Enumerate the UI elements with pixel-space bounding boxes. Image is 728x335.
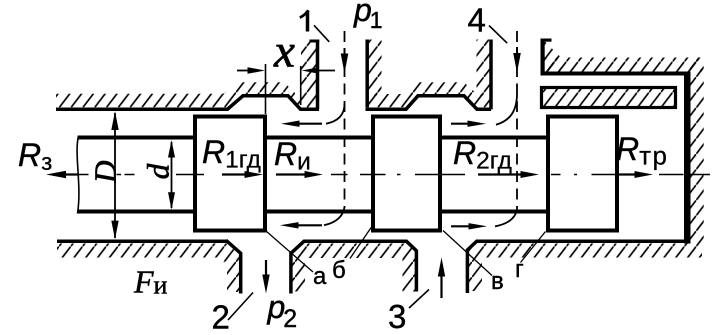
svg-text:x: x — [273, 26, 295, 78]
top-right wall left edge — [540, 39, 544, 76]
svg-text:3: 3 — [388, 298, 406, 335]
svg-text:Rтр: Rтр — [616, 131, 668, 171]
svg-text:г: г — [515, 256, 524, 283]
svg-text:Rз: Rз — [18, 137, 52, 176]
right housing wall — [684, 72, 691, 244]
upper-left wall column top tick — [310, 40, 320, 43]
leader line port 1 — [314, 25, 329, 42]
flow arrow into left chamber (upper) — [295, 123, 322, 125]
svg-text:Rи: Rи — [274, 136, 311, 176]
port 1 upper flow arc — [326, 104, 345, 124]
svg-text:а: а — [313, 263, 327, 290]
spool land 2 — [373, 117, 440, 231]
leader line edge g — [521, 232, 546, 263]
spool land 3 — [548, 117, 617, 231]
top-right housing wall hatch band — [541, 58, 703, 72]
port 1 centerline dashed — [344, 31, 346, 208]
port 4 centerline dashed — [516, 31, 518, 209]
port 3 inflow arrow — [440, 276, 442, 298]
bottom-left housing wall line — [57, 240, 227, 244]
svg-text:D: D — [88, 161, 123, 184]
bottom middle housing piece outline — [291, 241, 417, 293]
force Rtr arrow — [616, 173, 640, 175]
force R2gd arrow — [478, 173, 525, 175]
leader line edge b — [350, 227, 372, 259]
port 1 flow-in arrow — [344, 48, 346, 58]
middle top housing block outline — [365, 40, 369, 108]
leader line port 3 — [409, 290, 429, 309]
rod break line — [77, 136, 79, 214]
port 2 outflow arrow — [265, 260, 267, 278]
upper-left wall port-1 column hatch — [301, 40, 318, 108]
svg-text:p2: p2 — [267, 289, 298, 333]
force R1gd arrow — [222, 173, 250, 175]
svg-text:p1: p1 — [353, 0, 383, 33]
bottom middle housing piece hatch — [291, 244, 417, 292]
leader line edge a — [266, 231, 313, 272]
top-right wall corner tick — [541, 39, 552, 42]
right housing wall outer hatch band — [690, 58, 704, 244]
leader line port 4 — [489, 26, 507, 44]
port 4 upper flow arc — [496, 94, 517, 125]
flow arrow toward port 4 (lower) — [451, 225, 473, 227]
x dimension right arrow — [317, 70, 335, 72]
svg-text:Fи: Fи — [133, 264, 168, 300]
spool rod segment between lands 2 and 3 — [442, 136, 546, 140]
spool land 1 — [195, 117, 265, 231]
diameter d dimension line — [171, 142, 173, 208]
top-right housing wall line — [541, 72, 691, 76]
leader line edge v — [443, 231, 492, 276]
port 4 flow-in arrow — [516, 47, 518, 57]
leader line port 2 — [228, 293, 253, 321]
bottom-right housing wall line — [477, 240, 689, 244]
force Ri arrow — [276, 173, 309, 175]
spool rod segment between lands 1 and 2 — [267, 136, 371, 140]
port 2 left chamfer and edge — [226, 240, 241, 293]
force Rz arrow — [60, 173, 79, 175]
port 3 right chamfer and edge — [467, 241, 477, 294]
diameter D dimension line — [114, 113, 116, 238]
x dimension left arrow — [237, 70, 251, 72]
upper-left housing wall profile line — [56, 96, 319, 109]
svg-text:4: 4 — [468, 2, 486, 39]
port 4 lower flow arc — [495, 209, 517, 226]
port 1 lower flow arc — [324, 207, 345, 225]
bottom-right housing wall hatch band — [468, 244, 703, 292]
bottom-left housing wall hatch band — [57, 244, 241, 293]
svg-text:d: d — [140, 163, 175, 179]
middle top housing block hatch — [369, 40, 382, 97]
svg-text:2: 2 — [212, 299, 230, 335]
spool centerline (dash-dot segments) — [64, 174, 710, 176]
x dimension extension lines — [265, 64, 267, 114]
svg-text:R2гд: R2гд — [453, 135, 512, 175]
spool rod left segment — [78, 136, 193, 140]
upper-left wall port-1 column right edge — [316, 40, 320, 110]
svg-text:в: в — [491, 268, 504, 295]
upper-left housing wall hatch band — [56, 82, 301, 107]
flow arrow into left chamber (lower) — [295, 224, 322, 226]
flow arrow toward port 4 (upper) — [451, 123, 472, 125]
label 1 (custom footless glyph) — [306, 11, 310, 32]
svg-text:б: б — [332, 257, 346, 284]
sleeve bar hatched — [540, 86, 677, 109]
